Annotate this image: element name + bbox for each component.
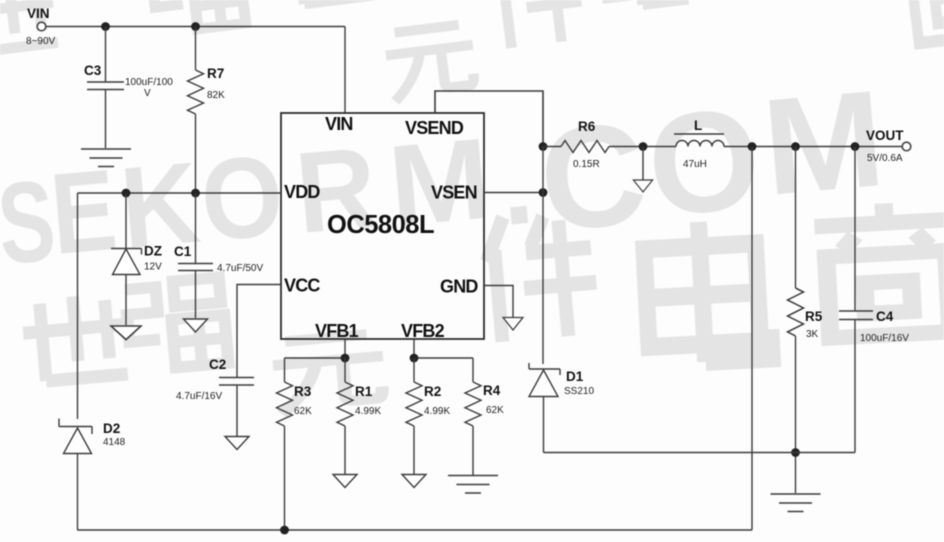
svg-text:V: V [144, 88, 151, 99]
wire VOUT rail [724, 146, 902, 148]
svg-text:GND: GND [440, 277, 478, 297]
svg-text:VOUT: VOUT [866, 128, 904, 143]
diode D1 SS210 [529, 363, 560, 453]
label R2 [424, 384, 450, 417]
svg-text:R4: R4 [483, 383, 501, 398]
svg-text:E: E [46, 145, 121, 279]
label R3 [294, 384, 312, 417]
node C4 top junction [851, 142, 860, 151]
arrow terminator R1 [333, 475, 357, 488]
svg-text:VIN: VIN [325, 114, 353, 134]
svg-text:47uH: 47uH [683, 159, 707, 170]
IC U1 OC5808L [281, 113, 484, 339]
svg-text:VDD: VDD [284, 182, 320, 202]
svg-text:C3: C3 [84, 63, 102, 78]
wire bottom rail [78, 529, 753, 531]
wire SW node down [542, 147, 544, 365]
svg-text:R6: R6 [578, 119, 596, 134]
svg-text:VFB2: VFB2 [401, 321, 445, 341]
label C4 [860, 309, 909, 344]
wire VIN pin [344, 27, 346, 114]
wire VDD rail [78, 192, 282, 194]
svg-text:VFB1: VFB1 [315, 321, 359, 341]
capacitor C2 [219, 378, 254, 437]
node R3 bottom junction [280, 526, 289, 535]
svg-text:OC5808L: OC5808L [327, 211, 434, 239]
arrow terminator DZ [111, 326, 141, 340]
node C3/VIN junction [101, 22, 110, 31]
wire VIN rail [46, 26, 345, 28]
svg-text:3K: 3K [806, 329, 819, 340]
capacitor C3 [87, 27, 124, 149]
label D1 [564, 369, 594, 397]
label DZ [144, 244, 162, 273]
svg-text:8~90V: 8~90V [26, 36, 56, 47]
wire VSEN [484, 192, 543, 194]
svg-text:R3: R3 [294, 384, 312, 399]
arrow terminator R2 [402, 475, 426, 488]
wire GND stub [484, 286, 513, 318]
svg-text:82K: 82K [207, 90, 225, 101]
svg-text:0.15R: 0.15R [573, 159, 600, 170]
svg-text:R1: R1 [355, 384, 373, 399]
node R5 top junction [791, 142, 800, 151]
wire VFB1 [285, 339, 346, 358]
node VFB2 junction [410, 354, 419, 363]
svg-text:SS210: SS210 [564, 386, 594, 397]
label C3 [84, 63, 173, 99]
svg-text:62K: 62K [294, 406, 312, 417]
wire VCC [237, 285, 281, 378]
resistor R5 [788, 147, 804, 494]
label C1 [174, 244, 263, 274]
node VFB1 junction [341, 354, 350, 363]
svg-text:VIN: VIN [27, 6, 50, 21]
wire D1 bottom rail [544, 452, 856, 454]
node VSEND/R6 junction [539, 142, 548, 151]
node R6 gnd junction [639, 142, 648, 151]
ground R5 [771, 494, 821, 512]
svg-text:5V/0.6A: 5V/0.6A [867, 153, 903, 164]
svg-text:4.99K: 4.99K [355, 406, 381, 417]
svg-text:C2: C2 [209, 357, 226, 372]
svg-text:4.7uF/16V: 4.7uF/16V [176, 391, 222, 402]
svg-text:R7: R7 [207, 66, 224, 81]
svg-text:12V: 12V [144, 262, 162, 273]
wire left rail [77, 193, 79, 419]
label R6 [573, 119, 600, 170]
arrow terminator R6 stub [633, 180, 652, 192]
label D2 [103, 421, 126, 448]
svg-text:D1: D1 [566, 369, 584, 384]
svg-text:100uF/100: 100uF/100 [125, 77, 173, 88]
resistor R4 [465, 358, 481, 475]
svg-text:C1: C1 [174, 244, 192, 259]
resistor R2 [406, 358, 422, 474]
inductor L [674, 134, 724, 147]
svg-text:O: O [196, 131, 288, 266]
label VOUT [866, 128, 904, 164]
node R7/VIN junction [191, 22, 200, 31]
svg-text:C: C [534, 91, 652, 262]
label L [683, 118, 707, 170]
node DZ junction [122, 189, 131, 198]
svg-text:D2: D2 [103, 421, 120, 436]
wire VFB2 [414, 339, 473, 358]
svg-text:4.7uF/50V: 4.7uF/50V [217, 263, 263, 274]
svg-text:DZ: DZ [144, 244, 162, 259]
label C2 [176, 357, 226, 402]
resistor R1 [337, 358, 353, 474]
terminal VOUT [902, 142, 911, 151]
label R4 [483, 383, 504, 416]
svg-text:4.99K: 4.99K [424, 406, 450, 417]
svg-text:L: L [694, 118, 702, 133]
svg-text:VSEND: VSEND [405, 118, 464, 138]
wire VSEND loop [435, 91, 543, 147]
resistor R7 [188, 27, 204, 194]
watermark [0, 0, 944, 415]
arrow terminator C1 [184, 319, 208, 332]
diode D2 [59, 419, 92, 531]
capacitor C1 [178, 193, 213, 318]
zener diode DZ [111, 193, 142, 325]
svg-text:62K: 62K [486, 405, 504, 416]
svg-text:R2: R2 [424, 384, 441, 399]
node VSEN junction [539, 188, 548, 197]
label U1 pins [284, 114, 478, 341]
svg-text:4148: 4148 [103, 437, 126, 448]
arrow terminator C2 [225, 437, 249, 450]
arrow terminator GND [503, 318, 523, 330]
label R5 [805, 309, 823, 340]
svg-text:R5: R5 [805, 309, 823, 324]
svg-text:100uF/16V: 100uF/16V [860, 333, 909, 344]
resistor R6 [543, 141, 676, 153]
wire gnd stub R6 [642, 147, 644, 181]
node feedback junction [748, 142, 757, 151]
svg-text:VCC: VCC [284, 276, 320, 296]
label R7 [207, 66, 225, 101]
label R1 [355, 384, 381, 417]
wire feedback rail [751, 147, 753, 531]
svg-text:VSEN: VSEN [431, 183, 477, 203]
capacitor C4 [839, 147, 873, 453]
node C1 junction [191, 189, 200, 198]
node R5/D1/C4 junction [791, 448, 800, 457]
terminal VIN [37, 22, 46, 31]
resistor R3 [277, 358, 293, 530]
ground C3 [81, 149, 131, 167]
svg-text:C4: C4 [876, 309, 894, 324]
ground R4 [448, 476, 498, 494]
label VIN [26, 6, 56, 47]
